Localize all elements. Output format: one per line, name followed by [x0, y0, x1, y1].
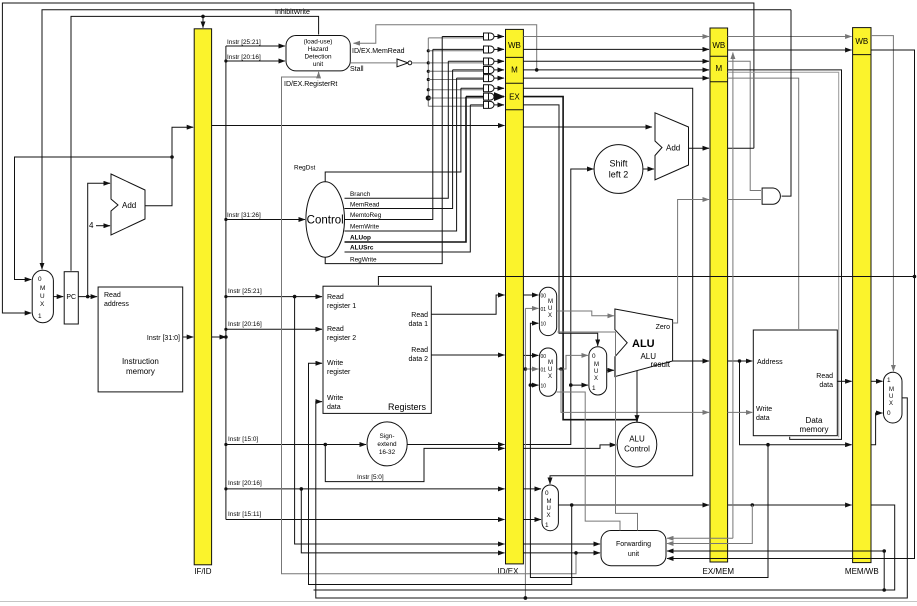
svg-text:M: M: [548, 299, 553, 305]
wire RegDst: [294, 88, 461, 182]
svg-text:MemWrite: MemWrite: [350, 224, 379, 231]
svg-text:data 2: data 2: [409, 356, 429, 363]
svg-text:unit: unit: [313, 61, 324, 68]
wire branch taken (AND) to PCSrc select: [42, 10, 791, 270]
svg-text:00: 00: [541, 354, 547, 360]
svg-text:M: M: [594, 362, 599, 368]
wire instr 5:0 to ALU control: [523, 445, 616, 449]
svg-text:unit: unit: [628, 551, 639, 558]
svg-text:EX/MEM: EX/MEM: [703, 567, 735, 576]
svg-text:U: U: [594, 369, 598, 375]
svg-text:ID/EX.RegisterRt: ID/EX.RegisterRt: [284, 81, 337, 88]
wire PC+4 to branch add: [523, 126, 652, 128]
wire M row3: [523, 60, 709, 62]
svg-text:10: 10: [541, 384, 547, 390]
svg-text:U: U: [547, 506, 551, 512]
wire read data to mux 1: [871, 380, 883, 382]
svg-text:address: address: [104, 301, 129, 308]
svg-text:Read: Read: [411, 347, 428, 354]
mux PCSrc: [32, 270, 53, 322]
svg-text:01: 01: [541, 307, 547, 313]
NOP mux row 2: [484, 46, 505, 53]
svg-text:Instr [20:16]: Instr [20:16]: [228, 321, 262, 328]
svg-text:Instr [20:16]: Instr [20:16]: [227, 54, 261, 61]
svg-text:WB: WB: [855, 37, 868, 46]
wire read data to MEM/WB: [837, 380, 851, 382]
wire forward mux B out: [557, 355, 709, 412]
wire branch target from top to mux input 1: [2, 3, 754, 313]
svg-text:U: U: [40, 293, 45, 300]
wire Add out / PC+4: [15, 127, 194, 279]
svg-text:Stall: Stall: [350, 66, 364, 73]
svg-text:Shift: Shift: [609, 159, 628, 169]
PC: [64, 272, 78, 324]
svg-text:MemRead: MemRead: [350, 202, 380, 209]
svg-text:Instr [25:21]: Instr [25:21]: [227, 39, 261, 46]
svg-text:Write: Write: [756, 406, 772, 413]
svg-text:0: 0: [38, 276, 42, 283]
wire ALUSrc: [345, 105, 471, 252]
ALU: [615, 309, 673, 377]
control staircase connectors to NOP muxes: [433, 37, 483, 105]
svg-text:IF/ID: IF/ID: [194, 567, 212, 576]
wire 4 to Add: [96, 225, 110, 227]
svg-text:0: 0: [545, 490, 549, 497]
svg-text:extend: extend: [377, 441, 397, 448]
NOP mux row 6: [484, 85, 505, 92]
wire RegWrite: [325, 37, 442, 264]
wire write reg mux input 1: [523, 519, 541, 521]
wire write reg number to registers: [309, 363, 572, 584]
mux write back: [884, 372, 903, 423]
svg-text:X: X: [40, 301, 45, 308]
svg-text:U: U: [548, 306, 552, 312]
mux write register: [542, 485, 558, 531]
adder branch: [655, 113, 689, 180]
svg-text:ID/EX.MemRead: ID/EX.MemRead: [352, 48, 405, 55]
svg-text:Instr [15:0]: Instr [15:0]: [228, 436, 258, 443]
svg-text:M: M: [715, 64, 722, 73]
svg-text:left 2: left 2: [609, 170, 629, 180]
svg-text:Instr [31:26]: Instr [31:26]: [227, 212, 261, 219]
svg-text:MemtoReg: MemtoReg: [350, 212, 382, 219]
wire EX/MEM ALU result feed: [529, 323, 768, 577]
wire zero to AND: [728, 199, 761, 201]
svg-text:Write: Write: [327, 395, 343, 402]
wire write reg mux input 0: [523, 488, 541, 490]
svg-text:Read: Read: [327, 326, 344, 333]
svg-text:X: X: [548, 374, 552, 380]
wire shift out to add: [643, 168, 654, 170]
wire Rt down to ID/EX: [301, 489, 504, 553]
NOP mux row 4: [484, 67, 505, 74]
svg-text:Registers: Registers: [388, 402, 427, 412]
control unit: [306, 182, 345, 257]
wire EX/MEM WB to MEM/WB row1: [728, 36, 852, 38]
hazard detection unit: [286, 36, 350, 71]
ALU control: [617, 422, 657, 467]
forwarding unit: [601, 531, 666, 566]
mux forward B: [539, 348, 556, 396]
svg-text:data: data: [327, 404, 341, 411]
svg-text:1: 1: [592, 385, 596, 392]
pipeline register EX/MEM: [703, 28, 735, 576]
wire EX/MEM.RegisterRd down to forwarding: [667, 505, 752, 544]
wire read data 1 to forward mux A: [523, 294, 538, 296]
svg-text:MEM/WB: MEM/WB: [845, 567, 879, 576]
adder PC+4: [111, 174, 145, 235]
NOP mux row 7: [484, 93, 505, 100]
NOP mux row 8: [484, 101, 505, 108]
svg-text:M: M: [547, 499, 552, 505]
mux forward A: [539, 287, 556, 335]
svg-text:M: M: [548, 360, 553, 366]
wire ALU result to MEM/WB: [740, 361, 852, 447]
svg-text:RegDst: RegDst: [294, 165, 316, 172]
svg-text:RegWrite: RegWrite: [350, 257, 377, 264]
wire MEM/WB.RegisterRd to forwarding: [667, 549, 886, 592]
wire read data 2 to forward mux B: [523, 354, 538, 356]
wire branch target out: [728, 147, 754, 149]
svg-text:M: M: [40, 285, 45, 292]
svg-text:memory: memory: [800, 425, 829, 434]
wire Instr[5:0]: [325, 445, 504, 482]
svg-text:(load-use): (load-use): [304, 39, 333, 46]
svg-text:Read: Read: [327, 294, 344, 301]
wire ALU result: [673, 360, 709, 362]
wire MemWrite: [728, 78, 799, 329]
svg-text:Instruction: Instruction: [122, 357, 159, 366]
svg-text:U: U: [889, 394, 893, 400]
wire InhibitWrite: [71, 9, 319, 271]
svg-text:Instr [31:0]: Instr [31:0]: [147, 335, 180, 342]
wire write data to memory: [728, 411, 753, 413]
svg-text:Instr [15:11]: Instr [15:11]: [228, 511, 261, 518]
wire RegDst select: [523, 88, 692, 484]
wire Instr[20:16] lower to ID/EX: [226, 480, 505, 491]
svg-text:PC: PC: [66, 294, 76, 301]
wire ALUop: [345, 97, 467, 242]
svg-text:X: X: [594, 376, 598, 382]
sign extend unit: [367, 422, 407, 466]
svg-text:data: data: [819, 382, 833, 389]
wire MEM/WB Rd out: [314, 505, 895, 590]
svg-text:X: X: [547, 513, 551, 519]
svg-text:0: 0: [887, 410, 891, 417]
wire Instr[20:16] to read register 2: [226, 321, 322, 329]
NOP mux row 1: [484, 33, 505, 40]
svg-text:Instr [5:0]: Instr [5:0]: [357, 474, 384, 481]
svg-text:1: 1: [545, 522, 549, 529]
wire MemtoReg: [345, 49, 433, 219]
svg-text:Address: Address: [757, 359, 783, 366]
wire MemtoReg select: [871, 36, 893, 372]
wire MEM/WB RegWrite to forwarding: [667, 50, 915, 559]
NOP mux row 5: [484, 75, 505, 82]
svg-text:memory: memory: [126, 367, 155, 376]
svg-text:M: M: [889, 387, 894, 393]
wire MemRead: [345, 70, 453, 209]
pipeline register ID/EX: [498, 29, 524, 576]
pipeline register MEM/WB: [845, 28, 879, 576]
svg-text:ALU: ALU: [632, 338, 655, 350]
wire Instr[25:21] to hazard: [226, 39, 285, 46]
wire Rs down to ID/EX: [295, 297, 505, 544]
instruction memory: [98, 287, 183, 392]
svg-text:ALUop: ALUop: [350, 235, 371, 242]
svg-text:10: 10: [541, 322, 547, 328]
svg-text:U: U: [548, 367, 552, 373]
wire WB value feed: [524, 308, 539, 599]
wire Instr[31:0] into IF/ID: [183, 336, 194, 338]
wire Instr[15:11] to ID/EX: [226, 511, 505, 520]
svg-text:Detection: Detection: [305, 54, 332, 61]
wire PC out: [78, 295, 97, 299]
wire mux to PC: [53, 296, 63, 298]
svg-text:ALUSrc: ALUSrc: [350, 245, 374, 252]
svg-text:InhibitWrite: InhibitWrite: [275, 9, 310, 16]
wire MemRead pair: [728, 72, 839, 437]
svg-text:Control: Control: [624, 445, 650, 454]
instruction bus: [212, 46, 228, 520]
wire ID/EX.RegisterRt to hazard: [282, 72, 578, 574]
svg-text:00: 00: [541, 294, 547, 300]
svg-text:ID/EX: ID/EX: [498, 567, 520, 576]
svg-text:register 1: register 1: [327, 303, 356, 310]
wire Rd EX/MEM out: [728, 503, 852, 507]
svg-text:Read: Read: [104, 292, 121, 299]
svg-text:Add: Add: [666, 144, 680, 153]
wire WB row2: [523, 48, 709, 50]
AND gate branch: [762, 188, 780, 204]
svg-text:Sign-: Sign-: [380, 433, 395, 440]
registers box: [323, 286, 431, 413]
svg-text:data 1: data 1: [409, 321, 429, 328]
wire sign extend out: [407, 444, 504, 446]
svg-text:Instr [25:21]: Instr [25:21]: [228, 288, 262, 295]
svg-text:register 2: register 2: [327, 335, 356, 342]
svg-text:data: data: [756, 415, 770, 422]
pipeline register IF/ID: [194, 29, 212, 576]
wire MemWrite: [345, 78, 457, 231]
wire M row5: [523, 77, 709, 79]
wire Rt to forwarding: [523, 552, 600, 554]
svg-text:Control: Control: [307, 215, 344, 227]
svg-text:Read: Read: [411, 312, 428, 319]
wire forward A select: [558, 332, 638, 531]
wire RegWrite back to Registers: [378, 277, 914, 286]
wire Instr[15:0] to sign extend: [226, 436, 366, 446]
data memory: [753, 330, 837, 436]
wire Instr[31:26] to Control: [226, 212, 305, 220]
wire AND out: [782, 10, 791, 196]
svg-text:Zero: Zero: [656, 324, 671, 331]
svg-text:Forwarding: Forwarding: [616, 541, 651, 548]
wire M row4: [523, 69, 709, 71]
wire ID/EX.MemRead: [352, 25, 539, 72]
wire Instr[25:21] to read register 1: [226, 288, 322, 298]
wire Instr[20:16] to hazard: [226, 54, 285, 61]
svg-text:X: X: [548, 313, 552, 319]
svg-text:Data: Data: [806, 416, 823, 425]
svg-text:0: 0: [592, 353, 596, 360]
wire forward B select: [557, 392, 621, 531]
wire EX/MEM WB to MEM/WB row2: [728, 49, 852, 51]
svg-text:Instr [20:16]: Instr [20:16]: [228, 480, 262, 487]
NOP mux row 3: [484, 58, 505, 65]
svg-text:01: 01: [541, 368, 547, 374]
svg-text:1: 1: [38, 313, 42, 320]
wire ALUSrc select: [523, 105, 597, 346]
svg-text:WB: WB: [508, 41, 521, 50]
svg-text:result: result: [650, 360, 670, 369]
wire Stall: [350, 63, 396, 73]
wire Branch: [345, 61, 449, 198]
wire stall distribution: [413, 38, 484, 106]
buffer stall inverter: [397, 59, 412, 67]
svg-text:16-32: 16-32: [379, 449, 396, 456]
wire PC to Add: [88, 183, 110, 296]
wire imm vertical: [523, 169, 593, 445]
wire forward mux A out to ALU: [557, 311, 614, 316]
svg-text:Add: Add: [122, 201, 136, 210]
wire Branch to AND: [728, 61, 761, 190]
wire ALU zero: [673, 200, 709, 324]
wire Rs to forwarding: [523, 543, 600, 545]
wire ALU result to address: [728, 359, 753, 363]
wire branch add out: [689, 147, 710, 149]
wire write reg number: [558, 503, 709, 507]
svg-text:ALU: ALU: [629, 435, 645, 444]
mux ALUSrc: [589, 347, 607, 395]
wire ALUSrc out to ALU: [607, 369, 614, 371]
wire read data 1: [431, 295, 504, 314]
wire read data 2: [431, 354, 504, 356]
svg-text:4: 4: [89, 221, 94, 230]
wire ALUop to ALU control: [523, 97, 637, 422]
svg-text:Read: Read: [816, 373, 833, 380]
wire WB row1: [523, 36, 709, 38]
wire MemRead: [728, 70, 842, 440]
shift left 2: [594, 145, 643, 194]
wire ALU result to mux 0: [871, 413, 883, 445]
svg-text:Branch: Branch: [350, 191, 371, 198]
svg-text:Hazard: Hazard: [308, 46, 329, 53]
svg-text:X: X: [889, 401, 893, 407]
svg-text:register: register: [327, 369, 351, 376]
wire PC+4 through IF/ID to ID/EX: [212, 125, 505, 127]
wire EX/MEM.RegWrite down to forwarding: [732, 53, 734, 539]
wire WB mux out: [316, 398, 908, 600]
svg-text:M: M: [511, 66, 518, 75]
svg-text:1: 1: [887, 377, 891, 384]
svg-text:Write: Write: [327, 360, 343, 367]
svg-text:EX: EX: [509, 93, 520, 102]
wire ALU control out: [636, 371, 638, 422]
svg-text:WB: WB: [712, 41, 725, 50]
